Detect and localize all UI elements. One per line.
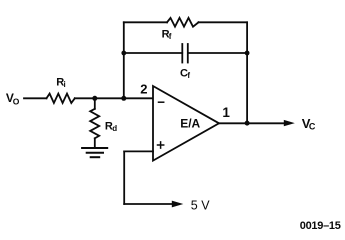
pin 1 label [222,105,230,120]
label Rf [162,29,172,41]
op-amp non-inverting input plus sign [158,142,164,148]
wire Ri to op-amp inverting input [75,97,153,99]
svg-text:1: 1 [222,105,230,120]
wire Rd to ground [94,138,96,148]
wire feedback top left segment [124,21,167,23]
wire non-inverting input horizontal [124,150,153,152]
node junction input/Rd [92,96,97,101]
wire Cf branch left [124,52,182,54]
wire input from Vo [24,97,47,99]
svg-text:O: O [13,96,20,106]
label Rd [105,120,117,133]
svg-text:C: C [309,122,316,132]
svg-text:0019–15: 0019–15 [300,220,341,231]
svg-text:2: 2 [140,81,147,96]
node junction input/feedback [121,96,126,101]
svg-text:f: f [187,71,190,80]
node Cf left junction [121,51,126,56]
op-amp U1 triangle [153,86,219,161]
resistor Ri [47,94,75,103]
op-amp inverting input minus sign [159,101,164,103]
figure number 0019-15 [300,220,341,232]
wire feedback top right segment [199,21,248,23]
wire output [219,122,284,124]
svg-text:5 V: 5 V [191,199,210,213]
arrowhead output to Vc [284,120,295,126]
wire feedback right vertical [246,22,248,123]
wire node to Rd [94,98,96,109]
label Vc [302,116,316,131]
label Cf [180,68,190,80]
svg-text:i: i [64,80,66,89]
svg-text:E/A: E/A [180,117,200,131]
ground [82,148,107,157]
svg-text:d: d [112,124,117,133]
wire Cf branch right [188,52,247,54]
node Cf right junction [245,51,250,56]
arrowhead 5V supply [172,201,184,208]
pin 2 label [140,81,147,96]
resistor Rd [90,109,99,139]
label Ri [56,76,66,88]
resistor Rf [167,18,199,27]
label E/A [180,117,200,131]
wire 5V horizontal [124,203,172,205]
capacitor Cf [182,44,188,63]
label Vo [6,91,20,106]
svg-text:f: f [169,32,172,41]
node output junction [245,121,250,126]
label 5 V [191,199,210,213]
wire 5V vertical [123,151,125,204]
wire feedback left vertical [123,22,125,98]
